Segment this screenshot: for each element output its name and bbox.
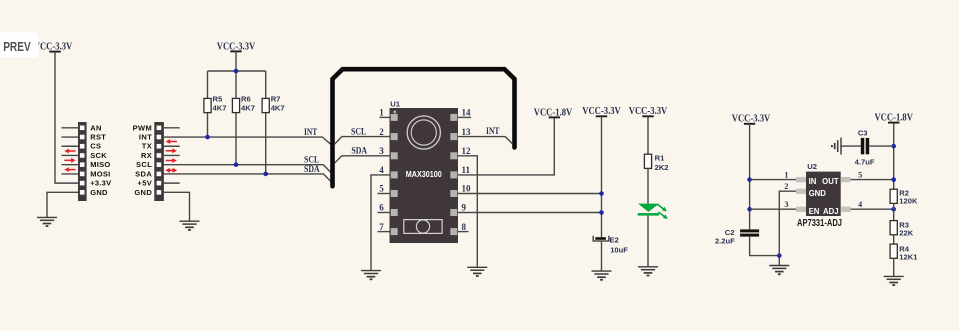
wire VCC-3.3V input rail <box>749 124 751 229</box>
svg-text:+5V: +5V <box>137 179 152 188</box>
svg-text:U2: U2 <box>807 162 817 171</box>
svg-text:SDA: SDA <box>304 165 320 175</box>
svg-text:OUT: OUT <box>822 177 839 186</box>
resistor R1 2K2 <box>644 153 668 172</box>
junction SCL/R6 <box>234 162 239 167</box>
pin U1-9 wire <box>458 212 602 214</box>
wire R3 to R4 <box>893 235 895 244</box>
pin U1-10 wire <box>458 193 602 195</box>
ground E2 <box>592 271 612 280</box>
svg-text:2.2uF: 2.2uF <box>715 236 735 245</box>
svg-text:SCL: SCL <box>136 160 152 169</box>
svg-text:ADJ: ADJ <box>823 207 839 216</box>
svg-text:4: 4 <box>379 165 384 175</box>
power VCC-3.3V (LED branch) <box>629 105 668 117</box>
pin U1-11 wire to VCC-1.8V <box>458 117 554 174</box>
pin U1-5 stub <box>378 193 390 195</box>
capacitor C3 4.7uF <box>855 129 875 167</box>
power VCC-1.8V (regulator output) <box>874 112 913 124</box>
wire R7 leads <box>265 71 267 174</box>
svg-text:3: 3 <box>379 146 384 156</box>
svg-text:R1: R1 <box>655 153 665 162</box>
svg-text:5: 5 <box>858 171 862 180</box>
ground U2/C2 <box>769 266 789 275</box>
arrow right header INT/TX/RX/SCL direction arrows <box>165 139 177 173</box>
svg-text:MOSI: MOSI <box>90 169 110 178</box>
svg-text:U1: U1 <box>390 99 400 108</box>
svg-text:+3.3V: +3.3V <box>90 179 111 188</box>
svg-text:9: 9 <box>462 203 467 213</box>
op-amp U1 MAX30100 sensor IC body <box>390 108 459 243</box>
junction U2 pin1 / input rail <box>747 177 752 182</box>
wire net INT U1 pin13 to bus <box>458 137 513 144</box>
resistor R4 12K1 <box>890 244 918 261</box>
wire right header row 4 stub <box>164 154 180 156</box>
svg-text:2: 2 <box>784 182 788 191</box>
wire pull-up top rail <box>208 70 266 72</box>
ground C3 (rotated) <box>832 138 841 155</box>
wire net SDA bus to U1 pin3 <box>334 156 389 164</box>
svg-text:10: 10 <box>462 184 472 194</box>
svg-text:INT: INT <box>304 128 318 138</box>
svg-text:6: 6 <box>379 203 384 213</box>
pin U2-5 wire <box>851 179 894 181</box>
pin U1-6 stub <box>378 212 390 214</box>
junction U2 pin4 / feedback node <box>891 207 896 212</box>
svg-text:RST: RST <box>90 133 106 142</box>
capacitor E2 10uF electrolytic <box>593 235 628 254</box>
svg-text:2K2: 2K2 <box>655 163 669 172</box>
ground feedback divider <box>884 276 904 285</box>
junction SDA/R7 <box>263 172 268 177</box>
power VCC-3.3V (left header supply) <box>34 41 73 53</box>
wire left header row 6 stub <box>62 173 79 175</box>
pin U1-1 stub <box>380 116 390 118</box>
resistor R2 120K <box>890 189 918 206</box>
svg-text:5: 5 <box>379 184 384 194</box>
svg-text:SCL: SCL <box>351 128 366 138</box>
power VCC-1.8V (U1 supply) <box>534 106 573 118</box>
wire LED to ground <box>647 216 649 267</box>
wire left header row 4 stub <box>62 154 79 156</box>
connector right mikroBUS header (PWM..GND) <box>133 122 164 201</box>
pin U1-14 stub <box>458 116 471 118</box>
svg-text:GND: GND <box>90 188 108 197</box>
wire left header row 1 stub <box>62 127 79 129</box>
svg-text:PREV: PREV <box>3 40 31 54</box>
svg-text:7: 7 <box>379 222 384 232</box>
svg-text:MISO: MISO <box>90 160 110 169</box>
pin U2-3 wire <box>750 208 796 210</box>
svg-text:1: 1 <box>379 108 384 118</box>
svg-text:AP7331-ADJ: AP7331-ADJ <box>797 218 842 229</box>
wire VCC to R1 <box>647 116 649 154</box>
svg-text:12K1: 12K1 <box>899 252 918 261</box>
wire C3 to rail <box>869 145 894 147</box>
svg-text:13: 13 <box>462 127 472 137</box>
svg-text:MAX30100: MAX30100 <box>406 169 442 179</box>
svg-text:4K7: 4K7 <box>241 104 255 113</box>
resistor R6 4K7 <box>232 95 255 113</box>
svg-text:TX: TX <box>142 142 152 151</box>
wire ground node down <box>778 256 780 266</box>
ground LED <box>638 267 658 276</box>
svg-text:AN: AN <box>90 123 101 132</box>
resistor R7 4K7 <box>262 95 285 113</box>
svg-text:GND: GND <box>134 188 152 197</box>
svg-text:SCK: SCK <box>90 151 107 160</box>
svg-text:SDA: SDA <box>351 147 367 157</box>
svg-text:4K7: 4K7 <box>213 104 227 113</box>
svg-text:2: 2 <box>379 127 384 137</box>
svg-text:8: 8 <box>462 222 467 232</box>
wire E2 to ground <box>601 241 603 271</box>
ground U1 pin 4 <box>361 271 381 280</box>
wire left header row 2 stub <box>62 136 79 138</box>
wire C2 to ground node <box>750 237 780 256</box>
LED LD1 green <box>638 204 668 220</box>
pin U1-12 wire to ground <box>458 156 477 267</box>
svg-text:10uF: 10uF <box>610 245 628 254</box>
junction C3 / output rail <box>891 144 896 149</box>
wire R1 to LED <box>647 168 649 203</box>
connector left mikroBUS header (AN..GND) <box>78 122 111 201</box>
wire net INT header to bus <box>164 137 331 144</box>
pin U2-4 wire <box>851 208 894 210</box>
svg-text:120K: 120K <box>899 197 918 206</box>
wire VCC down to E2 <box>601 116 603 237</box>
pin U1-7 stub <box>378 231 390 233</box>
resistor R3 22K <box>890 220 914 237</box>
ground U1 pin 12 <box>467 267 487 276</box>
svg-text:PWM: PWM <box>133 123 153 132</box>
svg-text:CS: CS <box>90 142 101 151</box>
junction INT/R5 <box>205 135 210 140</box>
nav overlay button PREV <box>0 33 38 58</box>
ground left header <box>37 217 57 226</box>
svg-text:EN: EN <box>809 207 820 216</box>
junction U2 pin3 / input rail <box>747 207 752 212</box>
wire right header row 3 stub <box>164 145 180 147</box>
wire left header GND <box>47 192 78 217</box>
svg-text:4: 4 <box>858 200 862 209</box>
svg-text:INT: INT <box>486 127 500 137</box>
svg-text:4.7uF: 4.7uF <box>855 157 875 166</box>
junction U1 pin10 / VCC-3.3V <box>599 191 604 196</box>
wire left header row 3 stub <box>62 145 79 147</box>
wire net SCL bus to U1 pin2 <box>334 137 389 145</box>
bus I2C/INT thick wire bundle over U1 <box>333 69 515 186</box>
junction U2 pin5 / output rail <box>891 177 896 182</box>
wire VCC-3.3V to +3.3V pin <box>55 52 78 184</box>
svg-text:3: 3 <box>784 200 788 209</box>
svg-text:GND: GND <box>809 189 827 198</box>
pin U2-1 wire <box>750 179 796 181</box>
svg-text:R7: R7 <box>271 95 281 104</box>
svg-text:12: 12 <box>462 146 472 156</box>
wire R2 to R3 <box>893 203 895 220</box>
power VCC-3.3V (regulator input) <box>732 113 771 125</box>
wire R5 leads <box>207 71 209 137</box>
junction rail/R6 <box>234 69 239 74</box>
svg-text:RX: RX <box>141 151 152 160</box>
wire right header GND <box>164 192 190 221</box>
wire R4 to ground <box>893 258 895 276</box>
capacitor C2 2.2uF <box>715 228 759 245</box>
svg-text:11: 11 <box>462 165 471 175</box>
power VCC-3.3V (E2 branch) <box>582 105 621 117</box>
wire net SDA header to bus <box>164 174 331 181</box>
svg-text:22K: 22K <box>899 228 913 237</box>
arrow left header CS/SCK/MISO direction arrows <box>64 149 75 172</box>
svg-text:R5: R5 <box>213 95 223 104</box>
wire R6 leads <box>235 71 237 165</box>
svg-text:1: 1 <box>784 171 788 180</box>
wire right header row 7 stub <box>164 182 180 184</box>
pin U1-8 stub <box>458 231 469 233</box>
svg-text:14: 14 <box>462 108 472 118</box>
wire VCC to rail <box>235 51 237 71</box>
wire C3 to ground <box>841 145 861 147</box>
svg-text:SDA: SDA <box>135 169 152 178</box>
svg-text:C3: C3 <box>858 129 868 138</box>
svg-text:R6: R6 <box>241 95 251 104</box>
ground right header <box>180 221 200 230</box>
regulator U2 AP7331-ADJ body <box>796 172 851 216</box>
wire output rail upper <box>893 123 895 190</box>
svg-text:4K7: 4K7 <box>271 104 285 113</box>
pin U1-4 wire to ground <box>371 175 390 271</box>
pin U2-2 wire <box>779 191 796 255</box>
wire left header row 5 stub <box>62 164 79 166</box>
svg-text:IN: IN <box>809 177 817 186</box>
resistor R5 4K7 <box>204 95 227 113</box>
svg-text:INT: INT <box>139 133 152 142</box>
junction U1 pin9 / VCC-3.3V <box>599 210 604 215</box>
power VCC-3.3V (pull-up rail) <box>217 40 256 52</box>
wire net SCL header to bus <box>164 165 331 172</box>
wire right header row 1 stub <box>164 127 180 129</box>
svg-text:E2: E2 <box>610 235 619 244</box>
junction C2/U2-GND node <box>777 253 782 258</box>
